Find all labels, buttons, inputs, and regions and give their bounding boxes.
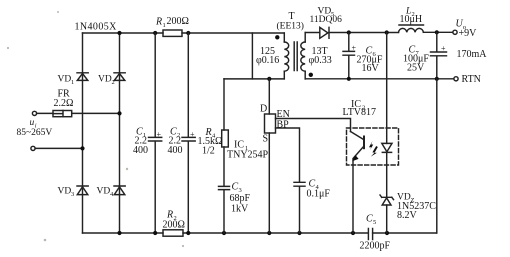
terminal RTN	[454, 77, 458, 81]
svg-text:2200pF: 2200pF	[360, 241, 391, 252]
label secondary 13T phi0.33	[309, 46, 332, 66]
label ui	[30, 118, 37, 130]
label R2 200ohm	[163, 210, 185, 231]
label C1 plus	[157, 130, 162, 139]
wire top rail left segment	[83, 32, 164, 34]
wire zener to rail	[386, 205, 388, 233]
label C3 value	[230, 182, 251, 215]
wire LED to zener	[386, 152, 388, 197]
wire BP pin	[276, 128, 300, 182]
wire source pin S	[268, 133, 270, 233]
svg-text:2.2Ω: 2.2Ω	[54, 98, 74, 109]
svg-text:3: 3	[71, 191, 74, 198]
wire drain pin D	[268, 79, 270, 114]
svg-text:25V: 25V	[407, 63, 425, 74]
capacitor C2	[182, 33, 195, 233]
svg-text:10μH: 10μH	[400, 14, 423, 25]
svg-text:1kV: 1kV	[231, 204, 249, 215]
svg-text:0.1μF: 0.1μF	[307, 189, 331, 200]
wire bottom rail middle	[183, 232, 368, 234]
wire input bottom to bridge	[35, 147, 82, 149]
node bottom rail dots	[117, 231, 389, 235]
label R1 200ohm	[155, 16, 189, 29]
primary phase dot	[275, 35, 279, 39]
svg-text:4: 4	[110, 191, 114, 198]
label L2 10uH	[400, 7, 423, 26]
svg-text:68pF: 68pF	[230, 193, 251, 204]
svg-text:170mA: 170mA	[457, 49, 488, 60]
wire EN pin	[276, 119, 351, 132]
terminal +9V	[453, 30, 457, 34]
svg-text:1: 1	[163, 22, 166, 29]
svg-text:11DQ06: 11DQ06	[310, 15, 343, 25]
resistor R1	[163, 30, 182, 36]
label RTN	[462, 74, 481, 85]
wire L2 to output	[423, 31, 452, 33]
transformer core	[294, 42, 297, 71]
node top rail VD2	[117, 31, 121, 35]
scan specks	[7, 11, 184, 247]
label S	[263, 134, 269, 145]
label C7 value	[403, 45, 429, 74]
svg-text:8.2V: 8.2V	[397, 210, 418, 221]
svg-text:+: +	[352, 44, 357, 53]
resistor R4	[222, 130, 229, 147]
wire bridge right column	[119, 33, 121, 233]
svg-text:C: C	[232, 182, 239, 193]
label BP	[277, 120, 290, 131]
opto emitter arrow	[352, 155, 358, 161]
svg-text:S: S	[263, 134, 269, 145]
svg-text:VD: VD	[58, 187, 72, 197]
label VD4	[97, 187, 115, 199]
label 1N4005X	[75, 22, 118, 33]
capacitor C4	[294, 182, 305, 233]
wire RTN to bottom rail	[436, 79, 438, 233]
label C1 value	[133, 127, 148, 157]
label primary 125 phi0.16	[256, 46, 279, 66]
wire primary bottom	[224, 78, 284, 80]
diode VD2	[114, 73, 125, 81]
node C6 top	[347, 30, 351, 34]
optocoupler IC2 dashed box	[347, 128, 399, 165]
label C2 plus	[190, 130, 195, 139]
svg-text:200Ω: 200Ω	[163, 220, 185, 231]
svg-text:φ0.33: φ0.33	[309, 55, 332, 66]
svg-text:+: +	[190, 130, 195, 139]
label 2200pF	[360, 241, 391, 252]
resistor R2	[163, 230, 183, 236]
svg-text:2: 2	[112, 79, 115, 86]
svg-text:BP: BP	[277, 120, 290, 131]
label C7 plus	[441, 44, 446, 53]
svg-text:+: +	[441, 44, 446, 53]
node C7 top	[435, 30, 439, 34]
capacitor C5 (Y-cap in ground rail)	[368, 229, 372, 240]
label IC2 LTV817	[343, 99, 377, 118]
svg-text:LTV817: LTV817	[343, 107, 377, 118]
node sense column top	[385, 30, 389, 34]
svg-text:400: 400	[133, 145, 148, 156]
capacitor C3	[219, 147, 230, 233]
label VD2	[98, 75, 115, 87]
diode VD4	[114, 186, 125, 195]
node AC2 bridge junction	[80, 146, 84, 150]
wire snubber vertical (rail to primary bottom)	[251, 33, 253, 79]
node RTN drop junction	[435, 77, 439, 81]
label VDZ value	[397, 193, 436, 222]
capacitor C7	[431, 32, 447, 79]
label FR 2.2ohm	[54, 89, 74, 109]
label IC1 TNY254P	[227, 140, 269, 161]
wire bridge left column	[82, 33, 84, 233]
node FR bridge junction	[117, 111, 121, 115]
diode VD1	[77, 73, 88, 81]
secondary phase dot	[309, 73, 313, 77]
svg-text:T: T	[289, 11, 295, 22]
svg-text:1/2: 1/2	[202, 146, 215, 157]
opto LED	[382, 143, 392, 152]
node top rail C2	[186, 31, 190, 35]
svg-text:RTN: RTN	[462, 74, 481, 85]
zener diode VDZ 1N5237C	[380, 195, 394, 205]
label T (EE13)	[277, 11, 304, 32]
label D	[260, 104, 267, 115]
label VD3	[58, 187, 75, 199]
label C2 value	[168, 127, 183, 157]
wire bottom rail right	[373, 232, 437, 234]
label VD1	[58, 75, 75, 87]
svg-text:VD: VD	[97, 187, 111, 197]
terminal input top	[32, 111, 36, 115]
wire FR to bridge	[72, 112, 120, 114]
wire R4 top	[223, 79, 225, 130]
svg-text:EN: EN	[277, 109, 290, 120]
svg-text:C: C	[366, 214, 373, 225]
svg-text:TNY254P: TNY254P	[227, 150, 269, 161]
svg-text:85~265V: 85~265V	[17, 128, 53, 138]
label EN	[277, 109, 290, 120]
ic U1 TNY254P box	[265, 114, 276, 133]
label 85-265V	[17, 128, 53, 138]
node top rail C1	[153, 31, 157, 35]
svg-text:φ0.16: φ0.16	[256, 55, 279, 66]
svg-text:400: 400	[168, 145, 183, 156]
node C6 bottom	[347, 77, 351, 81]
label R4 value	[198, 127, 223, 157]
inductor L2	[399, 25, 424, 32]
svg-text:1N4005X: 1N4005X	[75, 22, 118, 33]
diode VD3	[77, 186, 88, 195]
transformer T secondary winding	[301, 33, 305, 80]
label C6 value	[357, 46, 383, 75]
wire sense column	[386, 33, 388, 144]
svg-text:(EE13): (EE13)	[277, 21, 304, 32]
svg-text:16V: 16V	[362, 63, 380, 74]
wire bottom rail left	[83, 232, 164, 234]
label C6 plus	[352, 44, 357, 53]
wire top rail right segment	[182, 32, 284, 34]
svg-text:200Ω: 200Ω	[167, 16, 189, 27]
diode VD5 11DQ06	[320, 27, 329, 38]
label VD5 11DQ06	[310, 7, 343, 25]
svg-text:+9V: +9V	[459, 28, 478, 39]
svg-text:5: 5	[373, 219, 376, 226]
label C5	[366, 214, 376, 227]
transformer T primary winding	[284, 33, 288, 79]
label C4 value	[307, 179, 331, 200]
wire VD5 to L2	[329, 32, 399, 34]
svg-text:VD: VD	[58, 75, 72, 85]
label Uo +9V 170mA	[456, 19, 488, 61]
svg-text:D: D	[260, 104, 267, 115]
wire secondary top to VD5	[305, 32, 320, 34]
opto light arrows	[369, 141, 378, 157]
node drain junction	[267, 77, 271, 81]
wire RTN rail	[305, 78, 454, 80]
svg-text:R: R	[155, 17, 162, 28]
svg-text:1: 1	[71, 79, 74, 86]
opto phototransistor	[351, 132, 365, 234]
svg-text:VD: VD	[98, 75, 112, 85]
fusible resistor FR	[53, 111, 72, 117]
wire input top to FR	[37, 112, 53, 114]
capacitor C1	[149, 33, 162, 233]
svg-text:+: +	[157, 130, 162, 139]
terminal input bottom	[31, 146, 35, 150]
capacitor C6	[343, 33, 355, 79]
svg-text:u: u	[30, 118, 35, 128]
